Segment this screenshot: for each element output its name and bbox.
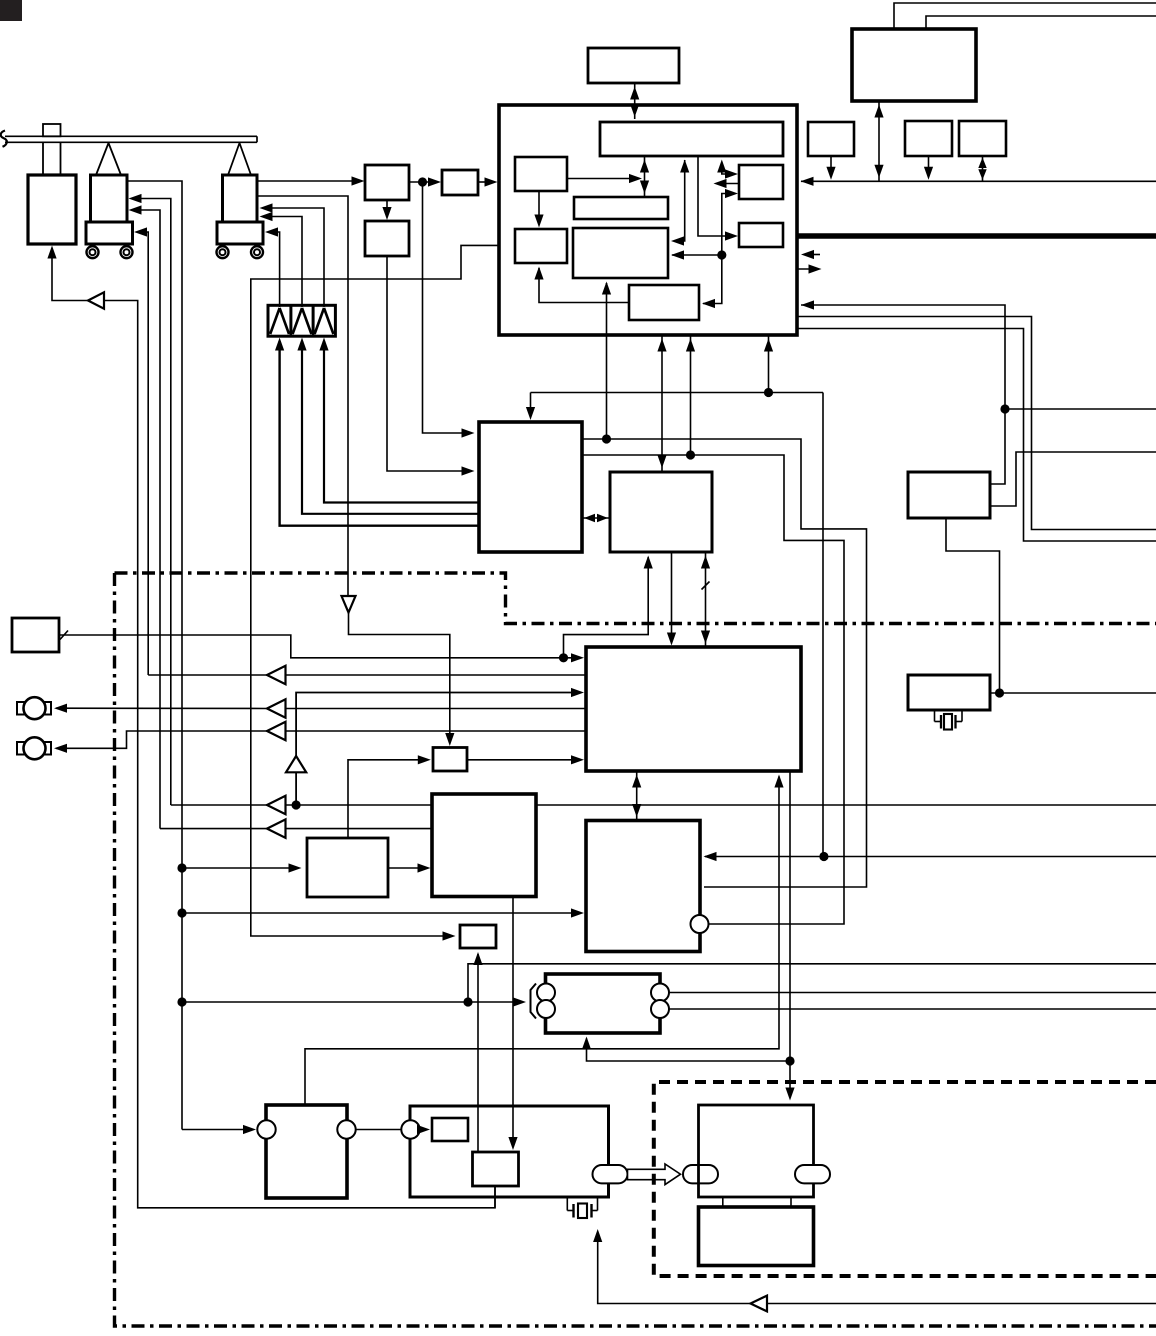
internal box m7 [739, 165, 783, 199]
wire B4 down to IB2 [508, 897, 517, 1151]
dash-dot section boundary [115, 573, 1156, 1326]
wire sb_b to bus [924, 156, 933, 180]
wire B2 down to servo [667, 552, 676, 646]
amp T5 [160, 819, 432, 837]
junction dot A-B [418, 177, 427, 186]
motor jack M2 [17, 737, 51, 759]
wire into A3 from head-amp 3 [260, 203, 325, 307]
capstan motor block A1 [28, 175, 76, 244]
slash on LB output [60, 631, 68, 640]
timer box B8 [401, 1106, 608, 1197]
wire B7 to B8 circle [356, 1129, 402, 1131]
net LB to servo and B2 [59, 556, 653, 663]
line out amp T3 [54, 722, 586, 753]
net B7 up to servo [305, 775, 784, 1106]
wire A down to C [382, 200, 391, 220]
mechanism driver B5 [586, 821, 700, 952]
bidirectional wire sb_c to bus [978, 156, 986, 181]
head amp block with triangles [268, 305, 335, 336]
line out amp T2 [54, 699, 586, 717]
REC drive wires from B1 into head amp [275, 338, 479, 526]
box B [442, 170, 478, 195]
tape rail [1, 131, 257, 147]
crystal of B8 [567, 1197, 597, 1218]
motor box B7 [257, 1105, 355, 1198]
net A main IC to X1 and right edge [801, 300, 1156, 484]
box X1 [908, 472, 990, 518]
wire A to B with junction [409, 177, 441, 186]
wire into A3 base from head-amp 1 [265, 227, 280, 307]
bidirectional wire top box to main IC [630, 83, 639, 119]
bidirectional wire bus to m3 [640, 156, 649, 197]
A2 wheels [87, 246, 133, 258]
inverter circle on B5 [691, 915, 709, 933]
wire L to m7 and bus [717, 160, 738, 179]
head assembly A2 [86, 143, 133, 244]
wire B4 right to edge [536, 804, 1156, 806]
oscillator box X2 [908, 675, 990, 710]
internal bar m3 [574, 197, 668, 219]
net H2 right edge into B5 [704, 852, 1156, 861]
small box SB1 [433, 748, 467, 772]
junction dot H2 [819, 852, 828, 861]
wire sb_a to bus [826, 156, 835, 180]
junction dot net A [1000, 404, 1009, 413]
A3 wheels [217, 246, 264, 258]
wire B6 to B4 [388, 863, 431, 872]
connector oval O2 on D1 [683, 1165, 718, 1183]
stub arrow into main IC right [801, 250, 820, 259]
mechanism box D1 [699, 1105, 814, 1197]
box above main IC [588, 48, 679, 83]
buffer amp to A1 [47, 246, 104, 309]
wire IB2 down to bottom rail [494, 1186, 496, 1208]
wire A3 second output to triangle buffer [257, 196, 348, 595]
servo control IC [586, 647, 801, 771]
down triangle buffer [342, 596, 455, 746]
junction dot T4 net [292, 800, 301, 809]
wire SB1 to servo [467, 755, 584, 764]
arrow into SB3 [417, 1125, 430, 1134]
junction dot servo-D1 net [785, 1056, 794, 1065]
net L2 B1 to B5 circle [582, 455, 844, 924]
wire junction down to B1 [423, 182, 475, 438]
connector oval O3 on D1 right [795, 1165, 830, 1183]
junction dots on head2 net [177, 863, 186, 872]
wire L2 dot up into main IC [686, 336, 695, 455]
bottom feedback line with buffer [593, 1229, 1156, 1311]
line out amp T1 [148, 666, 586, 684]
net main IC left to SB2 [251, 245, 499, 940]
wire from L1 dot up into m5 [602, 282, 611, 440]
box B2 [610, 472, 712, 552]
bidirectional wire B2 servo with slash [701, 552, 710, 647]
wire amp input from B8 timer [104, 301, 495, 1208]
junction dot L2 [686, 450, 695, 459]
internal box m5 [573, 228, 668, 278]
wire m1 to center [567, 174, 642, 183]
wire A2 output to left bus [127, 181, 182, 1130]
junction net J1 m5 m7 m8 [671, 189, 738, 308]
wire IB2 up to SB2 [473, 952, 482, 1151]
box C [365, 221, 409, 256]
small box SB3 inside B8 [432, 1118, 468, 1141]
internal box m1 [515, 157, 567, 191]
connector oval O1 on B8 [593, 1165, 628, 1183]
stub links D1 D2 [723, 1197, 791, 1207]
junction dot X2 net [995, 688, 1004, 697]
dashed mechanism boundary box [654, 1082, 1156, 1276]
box A [365, 165, 409, 200]
net D X1 to right edge [990, 452, 1156, 506]
inner box IB2 [473, 1152, 519, 1186]
bidirectional wire servo to B5 [632, 771, 641, 821]
wire into A2 from T4 line [129, 194, 171, 805]
bidirectional wire top right box to bus [874, 101, 883, 181]
net C main IC to right edge [797, 329, 1156, 542]
wire net392 up into main IC [764, 336, 773, 393]
rail cap block [43, 124, 61, 175]
internal box m6 [629, 285, 699, 320]
box B6 [307, 838, 388, 897]
small box sb_b [905, 121, 952, 156]
stub arrow out of main IC right [797, 264, 822, 273]
mechanism box D2 [699, 1207, 814, 1266]
wires from top right box to top edge [894, 3, 1156, 29]
small box sb_a [808, 122, 854, 156]
crystal of X2 [935, 710, 963, 730]
wire X1 down to X2 and right edge [946, 518, 1156, 693]
net head2 to B6 B5 and relay [182, 863, 1156, 1134]
internal top bus register [600, 122, 783, 156]
wire B to main IC [478, 177, 498, 186]
bus line to main IC right [801, 177, 1156, 186]
mode switch box LB [12, 618, 59, 652]
main system control IC [499, 105, 797, 335]
junction dot LB net [559, 653, 568, 662]
net L1 B1 to B5 right side [582, 439, 867, 887]
wire m1 down to m4 [534, 191, 543, 228]
net392 horizontal to B1 top and right riser [526, 393, 823, 857]
top right box [852, 29, 976, 101]
small box SB2 [460, 925, 496, 948]
wire A3 output to box A [257, 176, 365, 185]
thick data bus [797, 233, 1156, 238]
bidirectional wire main IC to B2 [657, 335, 666, 471]
internal box m4 [515, 229, 567, 263]
wire C down to B1 [387, 256, 475, 476]
wire into A2 base from T1 line [134, 227, 148, 675]
audio signal processor B1 [479, 422, 582, 552]
wire B6 up to SB1 [348, 755, 431, 838]
wire into A2 from T5 line [129, 205, 161, 828]
head assembly A3 [217, 143, 263, 244]
up triangle buffer UT [286, 688, 584, 805]
wire into A3 from head-amp 2 [260, 212, 303, 307]
head switching relay box FC [537, 974, 669, 1033]
cable hollow arrow [628, 1164, 681, 1185]
stub arrow out of m7 [714, 179, 740, 188]
wire bus down to m5 right [671, 160, 689, 246]
junction dot net392 [764, 388, 773, 397]
motor jack M1 [17, 697, 51, 719]
small box sb_c [959, 121, 1006, 156]
wire bus down to m8 [698, 156, 738, 241]
junction dot J1 [717, 250, 726, 259]
net B main IC to right edge [797, 317, 1156, 530]
input bracket of FC [531, 984, 537, 1019]
page corner marker [0, 0, 22, 21]
box B4 [432, 794, 536, 897]
wire m6 to m4 [534, 267, 629, 303]
bidirectional wire B1 B2 [582, 514, 610, 522]
junction dot L1 [602, 434, 611, 443]
internal box m8 [739, 223, 783, 247]
FC outputs to right edge [669, 993, 1156, 1010]
net servo down to D1 and FC [582, 771, 795, 1101]
amp T4 [171, 796, 432, 814]
